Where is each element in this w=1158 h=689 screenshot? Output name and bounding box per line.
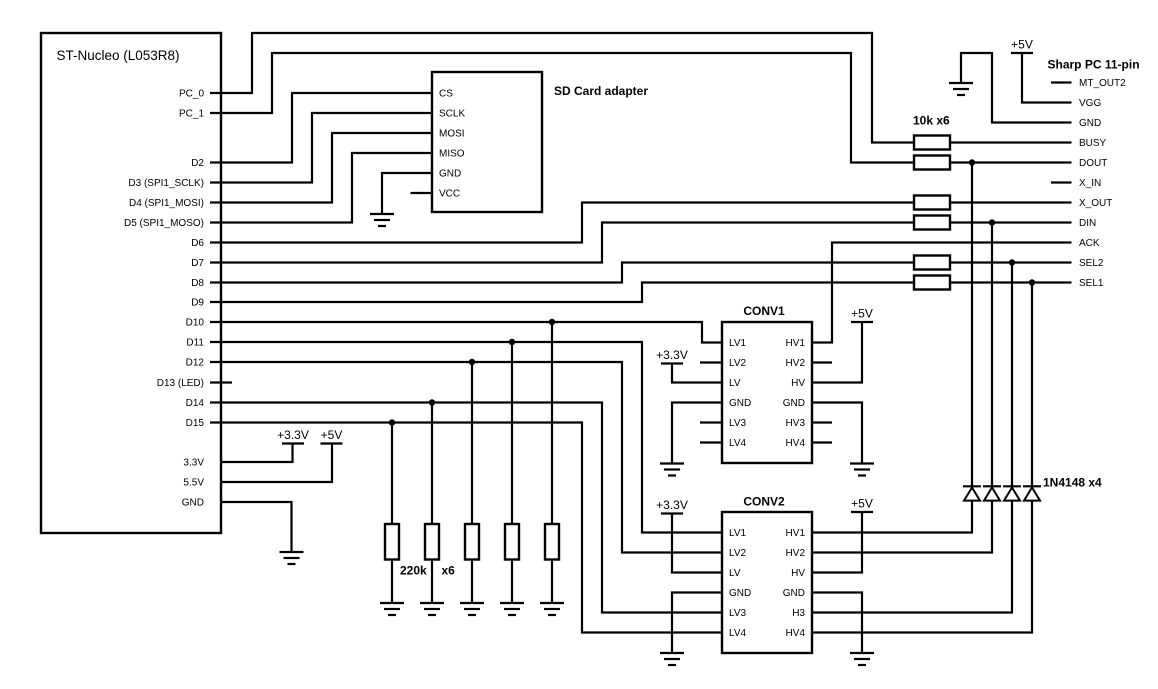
wire CONV1 HV1 to Sharp ACK xyxy=(812,243,1072,343)
IC U1 ST-Nucleo (L053R8) body xyxy=(41,33,221,533)
power +5V (CONV1) xyxy=(851,307,873,323)
wire 220k R10 to ground xyxy=(511,560,513,604)
wire D7 to 10k resistor R4 (DIN net) xyxy=(210,223,914,263)
wire +5V to VGG xyxy=(1022,53,1072,103)
resistor 220k R10 body xyxy=(505,524,519,560)
wire DOUT down to diode D1 xyxy=(971,163,973,487)
wire +3.3V to CONV2 LV xyxy=(672,514,722,573)
wire CONV2 H3 to diode D3 xyxy=(812,501,1012,613)
junction node DOUT/diode D1 xyxy=(969,159,975,165)
wire 10k R6 to Sharp SEL1 pin xyxy=(950,281,1072,283)
pin stub SD VCC, unconnected xyxy=(411,192,433,194)
ground (under 220k R11) xyxy=(540,603,564,615)
wire CONV1 GND(right) to ground xyxy=(812,403,862,464)
diode D3 1N4148 xyxy=(1003,486,1021,500)
junction node D14/220k xyxy=(429,399,435,405)
ground (under 220k R10) xyxy=(500,603,524,615)
svg-text:+3.3V: +3.3V xyxy=(656,498,688,512)
junction node DIN/diode D2 xyxy=(989,219,995,225)
wire +3.3V to CONV1 LV xyxy=(672,364,722,383)
wire D10 down to 220k resistor xyxy=(551,322,553,524)
wire SD GND to ground xyxy=(382,173,432,214)
wire PC_0 to 10k resistor R1 (BUSY net) xyxy=(210,33,914,143)
junction node SEL2/diode D3 xyxy=(1009,259,1015,265)
wire D2 to SD CS xyxy=(210,93,432,163)
resistor 10k R6 (SEL1) body xyxy=(914,276,950,290)
svg-text:D9: D9 xyxy=(191,298,204,309)
wire 220k R9 to ground xyxy=(471,560,473,604)
svg-text:+3.3V: +3.3V xyxy=(656,348,688,362)
junction node D11/220k xyxy=(509,339,515,345)
svg-text:+5V: +5V xyxy=(851,497,873,511)
wire 10k R1 to Sharp BUSY pin xyxy=(950,141,1072,143)
svg-text:220k: 220k xyxy=(400,564,427,578)
svg-text:LV: LV xyxy=(729,568,741,579)
wire D14 down to 220k resistor xyxy=(431,403,433,525)
resistor 220k R11 body xyxy=(545,524,559,560)
wire SEL1 down to diode D4 xyxy=(1031,283,1033,487)
wire DIN down to diode D2 xyxy=(991,223,993,487)
svg-text:HV4: HV4 xyxy=(786,628,806,639)
wire GND pin down xyxy=(221,502,292,552)
svg-text:HV: HV xyxy=(791,378,805,389)
wire D12 down to 220k resistor xyxy=(471,362,473,524)
svg-text:HV2: HV2 xyxy=(786,548,806,559)
pin stub CONV1 LV3, unconnected xyxy=(700,421,722,423)
ground (under 220k R8) xyxy=(420,603,444,615)
ground (CONV2 left) xyxy=(660,653,684,665)
svg-text:10k x6: 10k x6 xyxy=(913,114,950,128)
power +3.3V (nucleo 3.3V) xyxy=(277,428,309,444)
wire D12 to CONV2 LV2 xyxy=(210,362,722,553)
junction node D10/220k xyxy=(549,319,555,325)
wire 220k R8 to ground xyxy=(431,560,433,604)
wire SEL2 down to diode D3 xyxy=(1011,263,1013,487)
resistor 220k R7 body xyxy=(385,524,399,560)
resistor 10k R4 (DIN) body xyxy=(914,216,950,230)
pin stub CONV1 HV4, unconnected xyxy=(812,441,832,443)
svg-text:LV3: LV3 xyxy=(729,608,746,619)
pin stub CONV1 HV3, unconnected xyxy=(812,421,832,423)
wire CONV1 GND(left) to ground xyxy=(672,403,722,464)
svg-text:X_OUT: X_OUT xyxy=(1079,198,1112,209)
svg-text:+5V: +5V xyxy=(1011,38,1033,52)
svg-text:Sharp PC 11-pin: Sharp PC 11-pin xyxy=(1048,58,1140,72)
wire +5V to CONV1 HV xyxy=(812,322,862,383)
svg-text:GND: GND xyxy=(439,169,461,180)
pin stub CONV1 HV2, unconnected xyxy=(812,361,832,363)
diode D1 1N4148 xyxy=(963,486,981,500)
svg-text:D5 (SPI1_MOSO): D5 (SPI1_MOSO) xyxy=(124,218,204,229)
svg-text:ACK: ACK xyxy=(1079,238,1100,249)
wire D14 to CONV2 LV3 xyxy=(210,403,722,613)
power +5V (CONV2) xyxy=(851,497,873,513)
svg-text:DOUT: DOUT xyxy=(1079,158,1107,169)
wire 5.5V pin to +5V rail xyxy=(221,444,332,483)
svg-text:D12: D12 xyxy=(186,358,205,369)
svg-text:LV4: LV4 xyxy=(729,438,746,449)
ground (under 220k R7) xyxy=(380,603,404,615)
svg-text:LV2: LV2 xyxy=(729,548,746,559)
wire CONV2 HV1 to diode D1 xyxy=(812,501,972,533)
power +3.3V (CONV2) xyxy=(656,498,688,514)
svg-text:VCC: VCC xyxy=(439,189,460,200)
svg-text:SEL1: SEL1 xyxy=(1079,278,1104,289)
svg-text:DIN: DIN xyxy=(1079,218,1096,229)
svg-text:ST-Nucleo (L053R8): ST-Nucleo (L053R8) xyxy=(57,48,180,63)
pin stub D13 (LED), unconnected xyxy=(210,381,232,383)
wire 10k R3 to Sharp X_OUT pin xyxy=(950,201,1072,203)
wire 10k R4 to Sharp DIN pin xyxy=(950,221,1072,223)
svg-text:HV2: HV2 xyxy=(786,358,806,369)
ground (nucleo GND) xyxy=(280,552,304,564)
wire Sharp GND to ground xyxy=(961,53,1072,123)
wire CONV2 HV2 to diode D2 xyxy=(812,501,992,553)
pin stub CONV1 LV2, unconnected xyxy=(700,361,722,363)
svg-text:HV: HV xyxy=(791,568,805,579)
wire D6 to 10k resistor R3 (X_OUT net) xyxy=(210,203,914,243)
svg-text:HV1: HV1 xyxy=(786,338,806,349)
wire +5V to CONV2 HV xyxy=(812,512,862,573)
wire CONV2 GND(right) to ground xyxy=(812,593,862,654)
svg-text:LV3: LV3 xyxy=(729,418,746,429)
svg-text:D3 (SPI1_SCLK): D3 (SPI1_SCLK) xyxy=(128,178,204,189)
svg-text:D10: D10 xyxy=(186,318,205,329)
svg-text:LV1: LV1 xyxy=(729,528,746,539)
svg-text:CS: CS xyxy=(439,89,453,100)
svg-text:BUSY: BUSY xyxy=(1079,138,1107,149)
svg-text:GND: GND xyxy=(729,588,751,599)
svg-text:D11: D11 xyxy=(186,338,204,349)
wire D8 to 10k resistor R5 (SEL2 net) xyxy=(210,263,914,283)
ground (under 220k R9) xyxy=(460,603,484,615)
IC U2 SD Card adapter body xyxy=(432,72,542,212)
diode D4 1N4148 xyxy=(1023,486,1041,500)
svg-text:HV4: HV4 xyxy=(786,438,806,449)
pin stub MT_OUT2 of J1, unconnected xyxy=(1051,81,1072,83)
pin stub X_IN of J1, unconnected xyxy=(1051,181,1072,183)
svg-text:PC_0: PC_0 xyxy=(179,89,204,100)
wire D11 down to 220k resistor xyxy=(511,342,513,524)
power +3.3V (CONV1) xyxy=(656,348,688,364)
svg-text:X_IN: X_IN xyxy=(1079,178,1101,189)
junction node D15/220k xyxy=(389,419,395,425)
wire D3 to SD SCLK xyxy=(210,113,432,183)
power +5V (VGG) xyxy=(1011,38,1033,54)
svg-text:GND: GND xyxy=(783,398,805,409)
ground (CONV2 right) xyxy=(850,653,874,665)
svg-text:D8: D8 xyxy=(191,278,204,289)
svg-text:D14: D14 xyxy=(186,398,205,409)
wire D11 to CONV2 LV1 xyxy=(210,342,722,533)
wire D5 to SD MISO xyxy=(210,153,432,223)
diode D2 1N4148 xyxy=(983,486,1001,500)
svg-text:GND: GND xyxy=(729,398,751,409)
ground (Sharp GND) xyxy=(949,83,973,95)
svg-text:5.5V: 5.5V xyxy=(183,478,204,489)
svg-text:VGG: VGG xyxy=(1079,98,1101,109)
svg-text:D13 (LED): D13 (LED) xyxy=(157,378,204,389)
resistor 220k R8 body xyxy=(425,524,439,560)
svg-text:GND: GND xyxy=(182,498,204,509)
svg-text:+5V: +5V xyxy=(851,307,873,321)
svg-text:CONV2: CONV2 xyxy=(743,495,785,509)
svg-text:LV: LV xyxy=(729,378,741,389)
ground (CONV1 right) xyxy=(850,464,874,476)
svg-text:MOSI: MOSI xyxy=(439,129,465,140)
wire D15 down to 220k resistor xyxy=(391,423,393,525)
svg-text:SEL2: SEL2 xyxy=(1079,258,1104,269)
resistor 10k R1 (BUSY) body xyxy=(914,136,950,150)
wire 10k R5 to Sharp SEL2 pin xyxy=(950,261,1072,263)
svg-text:GND: GND xyxy=(1079,118,1101,129)
ground (CONV1 left) xyxy=(660,464,684,476)
svg-text:3.3V: 3.3V xyxy=(183,458,204,469)
wire CONV2 GND(left) to ground xyxy=(672,593,722,654)
pin stub CONV1 LV4, unconnected xyxy=(700,441,722,443)
junction node SEL1/diode D4 xyxy=(1029,279,1035,285)
junction node D12/220k xyxy=(469,359,475,365)
wire 220k R7 to ground xyxy=(391,560,393,604)
svg-text:SCLK: SCLK xyxy=(439,109,465,120)
svg-text:MISO: MISO xyxy=(439,149,465,160)
svg-text:+5V: +5V xyxy=(321,428,343,442)
svg-text:1N4148 x4: 1N4148 x4 xyxy=(1043,476,1102,490)
wire 10k R2 to Sharp DOUT pin xyxy=(950,161,1072,163)
resistor 10k R3 (X_OUT) body xyxy=(914,196,950,210)
svg-text:+3.3V: +3.3V xyxy=(277,428,309,442)
power +5V (nucleo 5.5V) xyxy=(321,428,343,444)
svg-text:SD Card adapter: SD Card adapter xyxy=(554,84,648,98)
IC U4 CONV2 body xyxy=(722,512,812,653)
svg-text:D15: D15 xyxy=(186,418,205,429)
resistor 10k R5 (SEL2) body xyxy=(914,256,950,270)
svg-text:D4 (SPI1_MOSI): D4 (SPI1_MOSI) xyxy=(129,198,204,209)
svg-text:D2: D2 xyxy=(191,158,204,169)
wire D15 to CONV2 LV4 xyxy=(210,423,722,633)
wire PC_1 to 10k resistor R2 (DOUT net) xyxy=(210,53,914,163)
svg-text:CONV1: CONV1 xyxy=(743,304,785,318)
svg-text:HV3: HV3 xyxy=(786,418,806,429)
resistor 220k R9 body xyxy=(465,524,479,560)
wire D9 to 10k resistor R6 (SEL1 net) xyxy=(210,283,914,303)
svg-text:MT_OUT2: MT_OUT2 xyxy=(1079,78,1126,89)
svg-text:LV4: LV4 xyxy=(729,628,746,639)
svg-text:x6: x6 xyxy=(442,564,456,578)
svg-text:LV1: LV1 xyxy=(729,338,746,349)
svg-text:D6: D6 xyxy=(191,238,204,249)
wire D4 to SD MOSI xyxy=(210,133,432,203)
IC U3 CONV1 body xyxy=(722,322,812,463)
svg-text:LV2: LV2 xyxy=(729,358,746,369)
svg-text:HV1: HV1 xyxy=(786,528,806,539)
wire CONV2 HV4 to diode D4 xyxy=(812,501,1032,633)
svg-text:GND: GND xyxy=(783,588,805,599)
wire D10 to CONV1 LV1 xyxy=(210,322,722,343)
resistor 10k R2 (DOUT) body xyxy=(914,156,950,170)
ground (SD adapter) xyxy=(370,214,394,226)
wire 3.3V pin to +3.3V rail xyxy=(221,444,293,463)
wire 220k R11 to ground xyxy=(551,560,553,604)
svg-text:D7: D7 xyxy=(191,258,204,269)
svg-text:H3: H3 xyxy=(792,608,805,619)
svg-text:PC_1: PC_1 xyxy=(179,109,204,120)
